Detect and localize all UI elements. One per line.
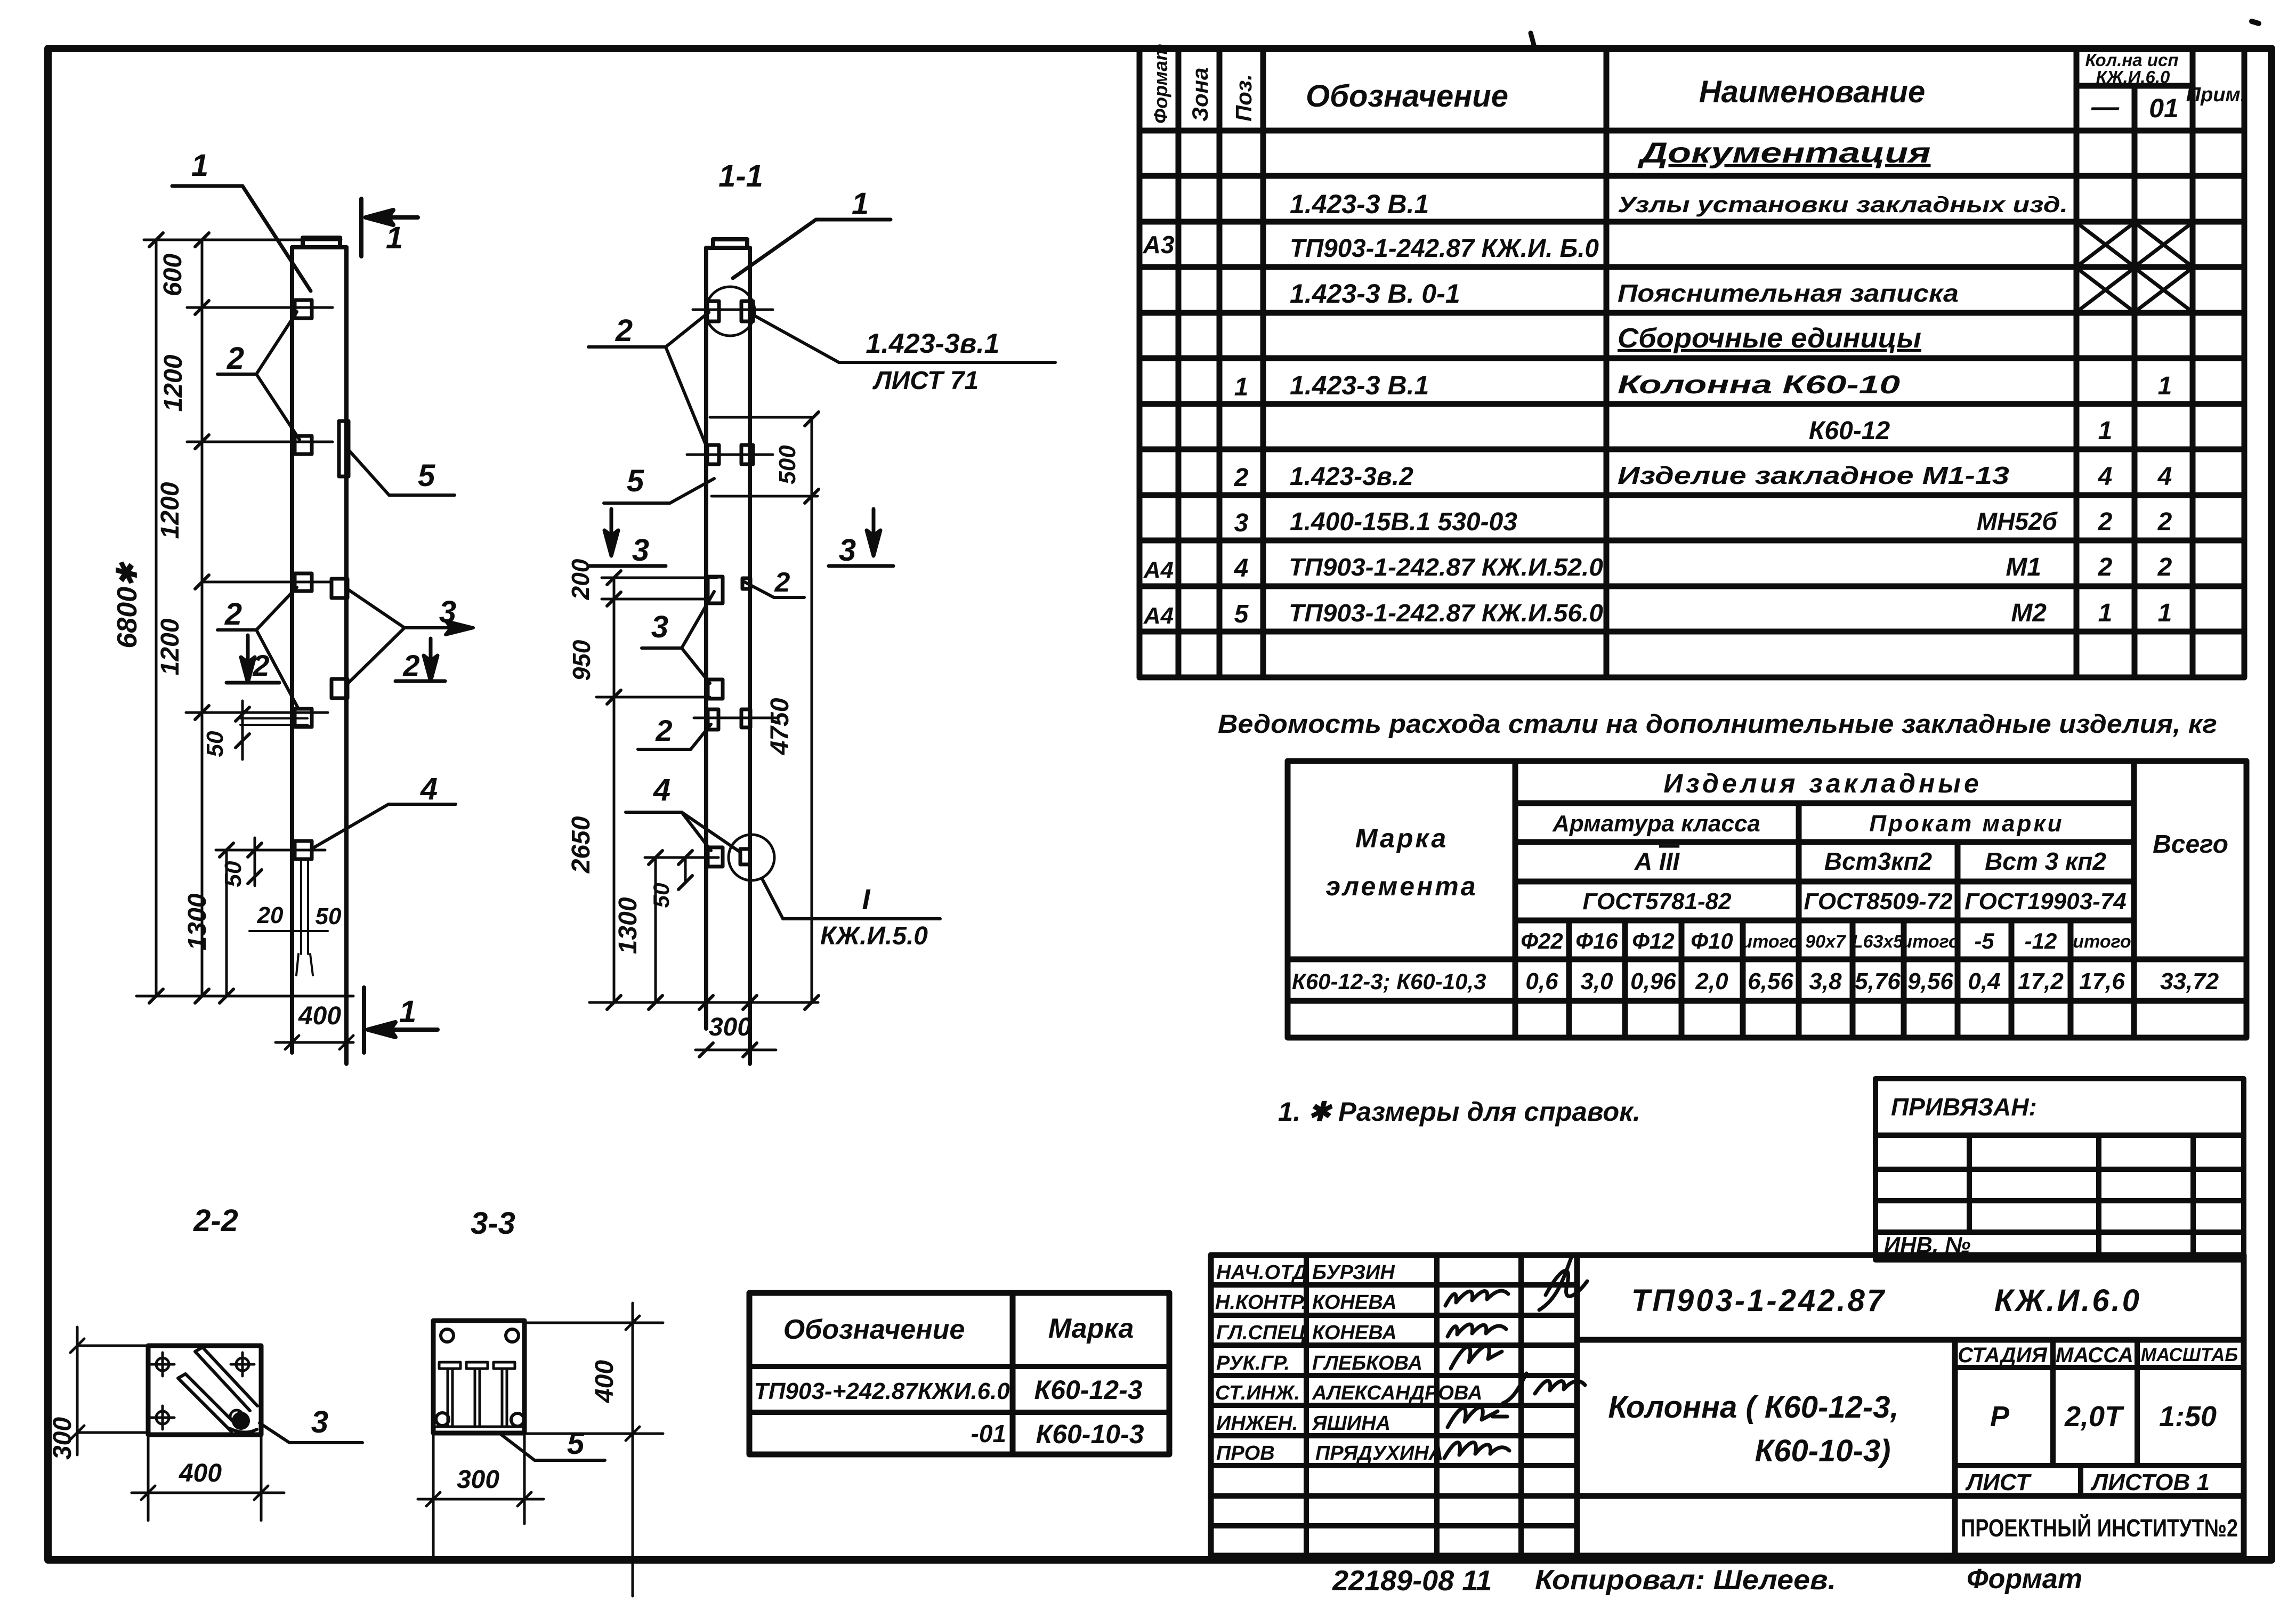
svg-text:2: 2 [252,649,269,682]
svg-text:Марка: Марка [1355,823,1448,853]
svg-text:Узлы установки закладных изд.: Узлы установки закладных изд. [1618,192,2068,217]
svg-text:ЯШИНА: ЯШИНА [1312,1412,1390,1435]
svg-text:01: 01 [2149,93,2179,123]
svg-text:2: 2 [2098,508,2113,536]
svg-text:КЖ.И.6.0: КЖ.И.6.0 [1994,1283,2141,1318]
svg-text:ТП903-1-242.87 КЖ.И.52.0: ТП903-1-242.87 КЖ.И.52.0 [1289,553,1603,581]
svg-text:К60-10-3: К60-10-3 [1036,1419,1144,1449]
svg-text:17,2: 17,2 [2018,968,2064,994]
svg-text:Изделие закладное М1-13: Изделие закладное М1-13 [1618,462,2010,489]
svg-text:1.423-3в.2: 1.423-3в.2 [1290,463,1413,491]
svg-text:4: 4 [2098,463,2113,491]
svg-text:Ф22: Ф22 [1521,928,1563,953]
svg-text:400: 400 [179,1459,222,1487]
svg-text:33,72: 33,72 [2160,968,2219,994]
svg-text:3: 3 [839,533,856,568]
svg-text:ТП903-1-242.87: ТП903-1-242.87 [1631,1283,1886,1318]
svg-text:К60-12-3: К60-12-3 [1034,1375,1142,1405]
svg-text:4: 4 [1234,554,1249,583]
svg-text:3,0: 3,0 [1580,968,1613,994]
svg-text:—: — [2091,92,2120,123]
svg-text:ПРЯДУХИНА: ПРЯДУХИНА [1315,1442,1443,1465]
svg-text:3-3: 3-3 [471,1206,515,1241]
svg-text:Колонна ( К60-12-3,: Колонна ( К60-12-3, [1608,1390,1898,1425]
svg-text:Всего: Всего [2153,830,2228,859]
svg-text:Ведомость расхода стали на доп: Ведомость расхода стали на дополнительны… [1218,710,2217,739]
svg-text:2: 2 [774,567,790,598]
svg-text:5: 5 [418,458,435,493]
svg-text:1.423-3 В.1: 1.423-3 В.1 [1290,189,1429,219]
svg-text:4750: 4750 [766,698,794,755]
svg-text:4: 4 [653,773,670,807]
svg-text:Прим.: Прим. [2186,84,2246,106]
svg-text:1. ✱ Размеры для справок.: 1. ✱ Размеры для справок. [1278,1097,1640,1127]
svg-text:МН52б: МН52б [1977,507,2058,535]
svg-text:1: 1 [2098,599,2113,627]
svg-text:А III: А III [1634,847,1680,875]
svg-text:2: 2 [2098,553,2113,581]
svg-text:МАСШТАБ: МАСШТАБ [2141,1345,2238,1365]
svg-text:Р: Р [1990,1401,2010,1433]
svg-text:КОНЕВА: КОНЕВА [1312,1291,1397,1314]
svg-text:НАЧ.ОТД: НАЧ.ОТД [1216,1261,1307,1284]
svg-text:22189-08 11: 22189-08 11 [1332,1565,1492,1597]
svg-text:6,56: 6,56 [1748,968,1793,994]
svg-text:Поз.: Поз. [1231,74,1256,122]
svg-text:90х7: 90х7 [1805,932,1847,952]
svg-text:ГЛЕБКОВА: ГЛЕБКОВА [1312,1352,1422,1374]
svg-text:элемента: элемента [1325,871,1477,901]
svg-text:ГОСТ8509-72: ГОСТ8509-72 [1804,888,1953,915]
svg-text:1: 1 [399,994,416,1029]
svg-text:5: 5 [567,1426,585,1461]
svg-text:Зона: Зона [1187,68,1212,122]
svg-text:17,6: 17,6 [2079,968,2125,994]
svg-text:1.400-15В.1 530-03: 1.400-15В.1 530-03 [1290,508,1517,536]
svg-text:L63х5: L63х5 [1852,932,1904,952]
svg-text:БУРЗИН: БУРЗИН [1312,1261,1395,1284]
svg-text:Вст 3 кп2: Вст 3 кп2 [1985,847,2106,875]
svg-text:ТП903-1-242.87 КЖ.И. Б.0: ТП903-1-242.87 КЖ.И. Б.0 [1290,234,1599,263]
svg-text:950: 950 [568,640,595,681]
svg-text:2: 2 [655,714,672,747]
svg-text:Прокат марки: Прокат марки [1869,811,2064,837]
svg-text:РУК.ГР.: РУК.ГР. [1216,1352,1290,1374]
svg-text:ГОСТ5781-82: ГОСТ5781-82 [1582,888,1732,915]
svg-text:СТАДИЯ: СТАДИЯ [1958,1344,2047,1367]
svg-text:-12: -12 [2025,928,2057,953]
svg-text:50: 50 [316,903,342,929]
svg-text:0,96: 0,96 [1630,968,1676,994]
svg-text:итого: итого [1741,932,1799,952]
svg-text:1: 1 [2158,372,2172,400]
svg-text:М2: М2 [2011,599,2047,627]
svg-text:3: 3 [632,533,649,568]
svg-text:Колонна К60-10: Колонна К60-10 [1618,371,1900,399]
svg-text:ЛИСТ 71: ЛИСТ 71 [872,367,979,395]
svg-text:ТП903-1-242.87 КЖ.И.56.0: ТП903-1-242.87 КЖ.И.56.0 [1289,599,1603,627]
svg-text:Обозначение: Обозначение [783,1314,965,1345]
svg-text:ПРИВЯЗАН:: ПРИВЯЗАН: [1891,1093,2037,1121]
svg-text:Формат: Формат [1967,1564,2082,1595]
svg-text:ПРОВ: ПРОВ [1216,1442,1275,1465]
svg-text:400: 400 [591,1360,619,1403]
svg-text:200: 200 [567,559,594,600]
svg-text:2,0Т: 2,0Т [2064,1401,2124,1433]
svg-text:2-2: 2-2 [193,1203,238,1238]
svg-text:2650: 2650 [567,816,595,873]
svg-text:2,0: 2,0 [1695,968,1728,994]
svg-text:1200: 1200 [156,482,184,539]
svg-text:1: 1 [2158,599,2172,627]
svg-text:А4: А4 [1143,603,1174,629]
svg-text:итого: итого [2073,932,2131,952]
svg-text:600: 600 [159,254,187,296]
svg-text:1.423-3 В.1: 1.423-3 В.1 [1290,370,1429,400]
svg-text:0,4: 0,4 [1968,968,2000,994]
svg-text:ЛИСТОВ 1: ЛИСТОВ 1 [2090,1469,2210,1495]
svg-text:ПРОЕКТНЫЙ ИНСТИТУТ№2: ПРОЕКТНЫЙ ИНСТИТУТ№2 [1961,1514,2238,1542]
svg-text:2: 2 [402,649,419,682]
svg-text:500: 500 [774,445,801,484]
svg-text:Формат: Формат [1150,44,1171,124]
svg-text:3: 3 [1234,509,1249,537]
svg-text:Ф12: Ф12 [1632,928,1675,953]
svg-text:5,76: 5,76 [1855,968,1901,994]
svg-text:50: 50 [220,861,246,887]
svg-text:ТП903-+242.87КЖИ.6.0: ТП903-+242.87КЖИ.6.0 [754,1378,1010,1404]
svg-text:3: 3 [311,1405,328,1439]
svg-text:400: 400 [298,1002,341,1030]
svg-text:1.423-3 В. 0-1: 1.423-3 В. 0-1 [1290,279,1460,309]
svg-text:Обозначение: Обозначение [1306,79,1508,114]
svg-text:ГЛ.СПЕЦ: ГЛ.СПЕЦ [1216,1322,1306,1344]
svg-text:Сборочные единицы: Сборочные единицы [1618,323,1921,354]
svg-text:Арматура класса: Арматура класса [1552,811,1760,837]
svg-text:Марка: Марка [1048,1313,1134,1344]
svg-text:1: 1 [852,187,869,221]
svg-text:2: 2 [2157,553,2172,581]
svg-text:Наименование: Наименование [1699,75,1925,109]
svg-text:А3: А3 [1143,231,1175,258]
svg-text:300: 300 [709,1013,751,1041]
svg-text:2: 2 [2157,508,2172,536]
svg-text:-5: -5 [1974,928,1994,953]
svg-text:ЛИСТ: ЛИСТ [1965,1469,2032,1495]
svg-text:СТ.ИНЖ.: СТ.ИНЖ. [1215,1382,1300,1404]
svg-text:3,8: 3,8 [1809,968,1842,994]
svg-text:6800✱: 6800✱ [112,561,143,649]
svg-text:1: 1 [386,221,403,255]
svg-text:5: 5 [1234,600,1249,628]
svg-text:К60-12-3; К60-10,3: К60-12-3; К60-10,3 [1292,969,1486,994]
svg-text:3: 3 [439,595,456,629]
svg-text:К60-12: К60-12 [1809,417,1890,445]
svg-text:1200: 1200 [156,618,184,675]
svg-text:3: 3 [651,610,668,644]
svg-text:1: 1 [1234,373,1249,401]
svg-text:2: 2 [227,341,244,376]
svg-text:2: 2 [1234,464,1249,492]
svg-text:Н.КОНТР.: Н.КОНТР. [1215,1291,1307,1314]
svg-text:1: 1 [191,148,208,183]
svg-text:300: 300 [48,1417,77,1460]
svg-text:50: 50 [202,731,228,757]
svg-text:итого: итого [1901,932,1959,952]
svg-text:М1: М1 [2006,553,2041,581]
svg-text:КОНЕВА: КОНЕВА [1312,1322,1397,1344]
svg-text:1300: 1300 [183,893,212,950]
svg-text:1.423-3в.1: 1.423-3в.1 [866,328,999,359]
svg-text:1: 1 [2098,417,2113,445]
svg-text:5: 5 [627,464,644,498]
svg-text:Ф16: Ф16 [1575,928,1618,953]
svg-text:4: 4 [420,772,438,806]
svg-text:4: 4 [2157,463,2172,491]
svg-text:I: I [862,884,870,916]
svg-text:АЛЕКСАНДРОВА: АЛЕКСАНДРОВА [1312,1382,1482,1404]
svg-text:1200: 1200 [159,354,188,411]
svg-text:КЖ.И.6.0: КЖ.И.6.0 [2096,67,2170,87]
svg-text:Документация: Документация [1637,137,1930,169]
svg-text:-01: -01 [971,1420,1006,1447]
svg-text:1:50: 1:50 [2159,1401,2217,1433]
svg-text:20: 20 [257,902,284,928]
svg-text:КЖ.И.5.0: КЖ.И.5.0 [820,922,928,950]
svg-text:2: 2 [224,597,242,632]
svg-text:Вст3кп2: Вст3кп2 [1824,847,1933,875]
svg-text:9,56: 9,56 [1907,968,1953,994]
svg-text:К60-10-3): К60-10-3) [1755,1434,1891,1468]
svg-text:ГОСТ19903-74: ГОСТ19903-74 [1964,888,2127,915]
svg-text:1-1: 1-1 [718,159,763,193]
svg-text:Изделия закладные: Изделия закладные [1663,768,1982,798]
svg-text:0,6: 0,6 [1525,968,1558,994]
svg-text:МАССА: МАССА [2056,1344,2133,1367]
svg-text:1300: 1300 [614,897,642,954]
svg-text:Ф10: Ф10 [1691,928,1733,953]
svg-text:50: 50 [649,883,674,908]
svg-text:300: 300 [457,1466,499,1494]
svg-text:Копировал: Шелеев.: Копировал: Шелеев. [1535,1565,1836,1596]
svg-text:ИНЖЕН.: ИНЖЕН. [1216,1412,1298,1435]
svg-text:Пояснительная записка: Пояснительная записка [1618,279,1959,307]
svg-text:2: 2 [615,313,633,348]
svg-text:А4: А4 [1143,557,1174,583]
